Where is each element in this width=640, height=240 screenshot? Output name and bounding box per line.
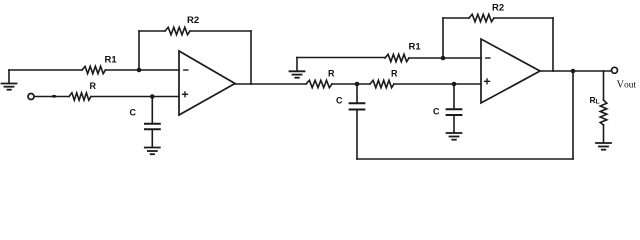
wire (ground to R1, stage 2 inverting row) bbox=[297, 57, 385, 59]
wire (feedback riser, node C up) bbox=[442, 18, 444, 58]
capacitor C (stage 2 bootstrap) bbox=[350, 84, 365, 159]
wire (R to U1 non-inverting input) bbox=[91, 96, 179, 98]
wire (feedback top right segment, stage 2) bbox=[494, 17, 553, 19]
resistor R1 (stage 2) bbox=[385, 54, 409, 61]
resistor R (stage 2 first) bbox=[306, 80, 332, 87]
wire (output feedback drop) bbox=[572, 71, 574, 159]
wire (RL to ground) bbox=[603, 125, 605, 143]
wire (ground to R1, stage 1 inverting row) bbox=[9, 69, 82, 71]
node C (U2 inverting input junction) bbox=[441, 56, 446, 61]
wire (bottom feedback rail) bbox=[357, 158, 573, 160]
svg-text:R: R bbox=[391, 69, 398, 79]
node E (U2 non-inverting input junction) bbox=[452, 82, 457, 87]
resistor R2 (stage 1 feedback) bbox=[165, 27, 190, 34]
svg-text:C: C bbox=[433, 107, 440, 117]
ground (under stage 1 C) bbox=[145, 148, 160, 155]
ground (stage 2 R1 input bias) bbox=[290, 58, 305, 78]
wire (input terminal to R) bbox=[34, 96, 69, 98]
svg-text:C: C bbox=[336, 96, 343, 106]
wire (node A to U1 inverting input) bbox=[139, 69, 179, 71]
wire (R1 to node A) bbox=[106, 69, 140, 71]
resistor R2 (stage 2 feedback) bbox=[469, 14, 494, 21]
wire (feedback top left segment, stage 2) bbox=[443, 17, 469, 19]
resistor R (stage 2 second) bbox=[370, 80, 394, 87]
node (small dot on input wire) bbox=[52, 95, 56, 98]
op-amp U1 bbox=[179, 51, 235, 115]
wire (U2 output) bbox=[540, 70, 612, 72]
svg-text:R: R bbox=[90, 81, 97, 91]
node B (U1 non-inverting input junction) bbox=[150, 94, 155, 99]
ground (stage 1 R1 input bias) bbox=[2, 70, 17, 90]
wire (second R to U2 non-inverting input) bbox=[394, 83, 481, 85]
wire (feedback top right segment) bbox=[190, 30, 251, 32]
node F (output junction) bbox=[571, 69, 576, 74]
terminal Vout bbox=[612, 67, 618, 73]
op-amp U2 bbox=[481, 39, 540, 103]
wire (U1 output to stage 2 R) bbox=[235, 83, 306, 85]
svg-text:R: R bbox=[328, 69, 335, 79]
capacitor C (stage 1) bbox=[145, 97, 160, 148]
wire (feedback top left segment) bbox=[139, 30, 165, 32]
wire (between stage 2 resistors) bbox=[332, 83, 370, 85]
resistor R (stage 1 input) bbox=[69, 93, 91, 100]
resistor RL (load) bbox=[600, 100, 607, 125]
terminal (input) bbox=[28, 94, 34, 100]
svg-text:R1: R1 bbox=[409, 42, 422, 53]
svg-text:Vout: Vout bbox=[617, 80, 637, 91]
ground (under stage 2 shunt C) bbox=[447, 133, 462, 140]
wire (feedback drop to U2 output) bbox=[552, 18, 554, 71]
node D (stage 2 mid node) bbox=[355, 82, 360, 87]
wire (R1 to node C) bbox=[409, 57, 443, 59]
ground (under RL) bbox=[596, 143, 611, 150]
wire (feedback riser, node A up) bbox=[138, 31, 140, 70]
wire (node C to U2 inverting input) bbox=[443, 57, 481, 59]
svg-text:C: C bbox=[130, 108, 137, 118]
resistor R1 (stage 1) bbox=[82, 66, 106, 73]
capacitor C (stage 2 shunt) bbox=[447, 84, 462, 133]
node A (U1 inverting input junction) bbox=[137, 68, 142, 73]
svg-text:R2: R2 bbox=[492, 3, 504, 14]
wire (RL branch) bbox=[603, 71, 605, 100]
wire (feedback drop to U1 output) bbox=[250, 31, 252, 84]
svg-text:R2: R2 bbox=[187, 15, 199, 26]
svg-text:R1: R1 bbox=[105, 55, 118, 66]
